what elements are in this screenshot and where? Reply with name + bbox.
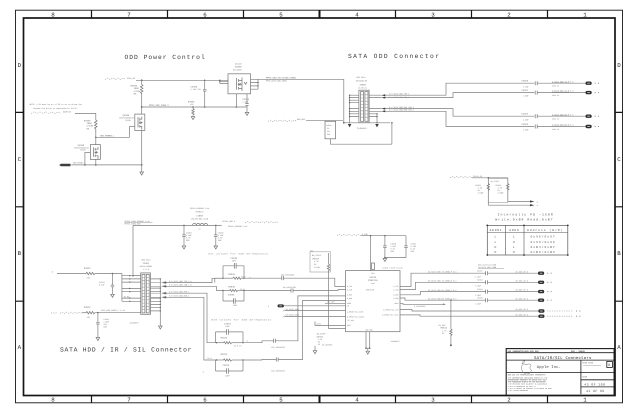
wire HDD 5V rail	[133, 224, 222, 226]
resistor R4535	[223, 285, 245, 291]
capacitor C4395	[191, 80, 207, 107]
svg-text:J4900: J4900	[359, 83, 366, 86]
svg-text:15PF: 15PF	[225, 325, 230, 328]
svg-text:D: D	[18, 62, 22, 69]
svg-text:1.0UF: 1.0UF	[523, 118, 529, 121]
filter F4900	[325, 121, 336, 139]
svg-text:A_RXP: A_RXP	[393, 294, 398, 297]
capacitor C4396	[243, 94, 250, 116]
capacitor C4921	[522, 89, 586, 98]
U4510 left pin stubs	[325, 301, 346, 304]
wire HDD power to J4901	[133, 225, 141, 275]
junction dots bottom rail	[84, 164, 86, 166]
svg-text:1.0UF: 1.0UF	[523, 85, 529, 88]
net stub SSD_MODE_EN (dashed)	[31, 111, 71, 114]
pad SATA ODD RXP	[586, 115, 600, 118]
pad HDD RXN	[538, 299, 552, 302]
wire ODD detect to connector	[306, 119, 343, 121]
capacitor C4920	[522, 80, 586, 89]
resistor R4396	[131, 80, 144, 95]
svg-text:C4912: C4912	[477, 270, 483, 273]
capacitor C4910	[383, 236, 397, 258]
svg-text:A_TXN: A_TXN	[393, 288, 398, 291]
wire Q4399 gate	[85, 153, 91, 165]
svg-text:1: 1	[583, 11, 587, 18]
svg-text:R4531: R4531	[84, 267, 91, 270]
svg-text:X.X.X: X.X.X	[51, 312, 58, 315]
svg-text:C4921: C4921	[522, 89, 529, 92]
transistor U4511	[313, 333, 326, 354]
title block outer box	[506, 349, 614, 396]
wire VDD pin	[370, 236, 372, 271]
svg-text:SATA ODD Connector: SATA ODD Connector	[348, 53, 440, 60]
junction dots on 5V rail	[141, 79, 143, 81]
svg-text:XX_SATA_HDD_TX_CONN_N 5-4: XX_SATA_HDD_TX_CONN_N 5-4	[428, 280, 457, 283]
wire Q4396 right pins bus	[251, 79, 259, 89]
svg-text:15PF: 15PF	[225, 375, 230, 378]
svg-text:B: B	[608, 363, 610, 368]
svg-text:D: D	[617, 62, 621, 69]
U4510 right pin names	[382, 285, 398, 317]
svg-text:JK.MK.SL: JK.MK.SL	[358, 87, 367, 90]
svg-text:FL4900LD: FL4900LD	[357, 127, 367, 130]
IC U4510	[346, 271, 401, 332]
svg-text:TST_ADV: TST_ADV	[347, 319, 354, 322]
svg-text:B: B	[617, 250, 621, 257]
svg-text:8: 8	[51, 11, 55, 18]
junction C4531 node	[112, 273, 114, 275]
wire SATA ODD RXP trace	[385, 109, 534, 117]
svg-text:15PF: 15PF	[232, 260, 237, 263]
svg-text:2.2UF 25V: 2.2UF 25V	[191, 88, 202, 91]
svg-text:IR: IR	[347, 305, 349, 308]
svg-text:L: L	[513, 236, 515, 239]
svg-text:FERRITE: FERRITE	[196, 210, 205, 213]
wire pullup rail	[472, 177, 508, 179]
svg-text:S5P4230: S5P4230	[366, 289, 375, 292]
capacitor C4923	[522, 123, 586, 132]
junction C4532 node	[97, 312, 99, 314]
svg-text:SMD: SMD	[327, 133, 330, 136]
svg-text:XXX - XXXXX: XXX - XXXXX	[571, 350, 585, 353]
svg-text:0xB8/0xB9: 0xB8/0xB9	[531, 250, 556, 254]
pin arrow SATA_ODD_TXN	[381, 97, 385, 99]
wire trace HDD RXP	[400, 292, 486, 295]
svg-text:0.1UF: 0.1UF	[99, 284, 105, 287]
svg-text:SATA HDD / IR / SIL Connector: SATA HDD / IR / SIL Connector	[60, 346, 192, 353]
svg-text:XXXX XX: XXXX XX	[552, 118, 559, 121]
svg-text:L: L	[495, 241, 497, 244]
svg-text:B_PRSNT/SIL_CFG2: B_PRSNT/SIL_CFG2	[382, 314, 398, 317]
svg-text:A: A	[617, 344, 621, 351]
svg-text:A_RXN: A_RXN	[393, 297, 398, 300]
wire node R4397 top	[75, 114, 96, 121]
SECTION: TITLE BLOCK	[506, 349, 614, 396]
svg-text:0x98/0x99: 0x98/0x99	[531, 240, 556, 244]
capacitor C4913	[475, 279, 538, 288]
resistor R4513	[496, 178, 531, 202]
svg-text:NOTICE OF PROPRIETARY PROPERTY: NOTICE OF PROPRIETARY PROPERTY:	[508, 373, 547, 376]
wire SATA ODD RXN trace	[385, 111, 534, 126]
svg-text:43 OF 109: 43 OF 109	[584, 383, 605, 387]
capacitor C4902	[214, 225, 223, 249]
svg-text:B: B	[18, 250, 22, 257]
wire HDD RXN to lower network4	[166, 297, 216, 360]
resistor R4391	[188, 101, 195, 120]
svg-text:F4900: F4900	[326, 124, 331, 127]
svg-text:5: 5	[279, 396, 283, 403]
svg-text:C: C	[617, 156, 621, 163]
svg-text:1/16W: 1/16W	[478, 191, 485, 194]
SECTION: J4901 HDD CONNECTOR	[51, 259, 222, 360]
wire gate net Q4398	[96, 126, 130, 137]
wire J4900 right pin bus	[369, 95, 381, 123]
svg-text:A_TXP: A_TXP	[393, 285, 398, 288]
svg-text:75.0 1%: 75.0 1%	[234, 344, 243, 347]
net label PP5V3_HDDPWR	[125, 220, 153, 226]
svg-text:R4533: R4533	[221, 353, 228, 356]
junction dots mid rail	[192, 106, 194, 108]
svg-text:IR_RX: IR_RX	[124, 295, 131, 298]
svg-text:XXX_XXXXXXXX: XXX_XXXXXXXX	[271, 346, 285, 349]
svg-text:31A4698T: 31A4698T	[130, 321, 140, 324]
net tag SATA_ODD_PWR_L	[59, 162, 86, 167]
resistor R4531	[51, 267, 122, 280]
svg-text:XX_XXX_XX 5: XX_XXX_XX 5	[516, 289, 529, 292]
svg-text:H: H	[513, 241, 515, 244]
svg-text:1: 1	[583, 396, 587, 403]
bus label SATA HDD CONN	[478, 263, 504, 268]
inductor L4900	[190, 207, 210, 230]
svg-text:XX_SATA_HDD_RX_CONN_P 5-4: XX_SATA_HDD_RX_CONN_P 5-4	[428, 289, 457, 292]
svg-text:XX_SATA_HDD_TX_CONN_P 5-4: XX_SATA_HDD_TX_CONN_P 5-4	[428, 270, 457, 273]
svg-text:SATA_HDD_PRSNT_L 1-4A: SATA_HDD_PRSNT_L 1-4A	[101, 309, 126, 312]
SECTION: SATA ODD CONNECTOR	[325, 76, 599, 144]
svg-text:Write:0xB8 Read:0xB7: Write:0xB8 Read:0xB7	[495, 217, 553, 221]
wire J4901 right pin bus	[151, 278, 163, 329]
svg-text:H: H	[495, 246, 497, 249]
svg-text:XX_XXX_XX 5: XX_XXX_XX 5	[516, 279, 529, 282]
nc stub pin SIL_SCMD2	[283, 314, 346, 318]
svg-text:ODD_PWREN_L: ODD_PWREN_L	[100, 134, 115, 137]
svg-text:B_TXP: B_TXP	[347, 285, 352, 288]
svg-text:6: 6	[203, 11, 207, 18]
capacitor C4535	[223, 293, 244, 307]
svg-text:XXX_XXXXXXXX: XXX_XXXXXXXX	[281, 273, 295, 276]
svg-text:3: 3	[431, 396, 435, 403]
wire RXP exit with series cap	[243, 296, 346, 349]
svg-text:7: 7	[127, 11, 131, 18]
svg-text:0x96/0x97: 0x96/0x97	[531, 235, 556, 239]
svg-text:75205: 75205	[125, 119, 132, 122]
wire cap ground rail	[385, 257, 406, 259]
svg-text:XXXX XX: XXXX XX	[552, 128, 559, 131]
svg-text:R4532: R4532	[84, 306, 91, 309]
wire mid rail y107	[142, 106, 247, 108]
svg-text:1/16W: 1/16W	[314, 266, 321, 269]
pad HDD RXP	[538, 290, 552, 293]
svg-text:XX_XXXX_XXXX: XX_XXXX_XXXX	[286, 314, 300, 317]
resistor R4532	[51, 306, 141, 319]
svg-text:X_XXXXXXXX: X_XXXXXXXX	[414, 305, 426, 308]
wire trace HDD TXP	[400, 273, 486, 286]
svg-text:C4913: C4913	[477, 279, 484, 282]
svg-text:C4922: C4922	[522, 113, 529, 116]
transistor Q4398	[119, 114, 145, 130]
wire source rail to main rail	[71, 164, 141, 166]
U4510 left pin names	[347, 285, 364, 327]
svg-text:ODD_PRSNT_L: ODD_PRSNT_L	[73, 162, 86, 165]
transistor Q4396	[228, 63, 251, 94]
wire Q4398 gate stub	[129, 125, 134, 127]
bottom zone ticks	[92, 396, 548, 403]
svg-text:XX_XXX_XX 5: XX_XXX_XX 5	[516, 297, 529, 300]
connector J4901 body	[141, 273, 151, 314]
wire HDD TXN to network2	[166, 285, 217, 287]
capacitor C4911	[404, 236, 417, 258]
pad SIL CFG2	[538, 315, 580, 318]
svg-text:A_PRSNT/SIL_SCMD: A_PRSNT/SIL_SCMD	[347, 310, 363, 313]
svg-text:-2: -2	[536, 201, 538, 204]
pad SATA ODD RXN	[586, 125, 600, 128]
svg-text:Internally PD ~150R: Internally PD ~150R	[498, 212, 554, 216]
svg-text:R4534: R4534	[221, 337, 228, 340]
ground caps	[383, 258, 387, 261]
wire VDD rail	[361, 235, 406, 237]
svg-text:1.5.8: 1.5.8	[143, 268, 150, 271]
svg-text:5: 5	[268, 305, 269, 308]
svg-text:1/16W: 1/16W	[498, 191, 505, 194]
wire R4396 bottom to Q4398	[141, 93, 143, 114]
capacitor C4915	[475, 297, 538, 306]
stub pin REXT	[315, 322, 346, 326]
pin arrow SATA_HDD_RXP	[151, 292, 167, 294]
svg-text:REXT: REXT	[347, 324, 351, 327]
svg-text:Address (W/R): Address (W/R)	[527, 228, 563, 232]
svg-text:C4915: C4915	[477, 297, 484, 300]
wire IR to U4510	[284, 305, 346, 307]
svg-text:SATA/IR/SIL Connectors: SATA/IR/SIL Connectors	[534, 356, 592, 361]
wire RXN exit with series cap	[243, 300, 346, 372]
capacitor C4533	[216, 364, 244, 378]
svg-text:6: 6	[203, 396, 207, 403]
connector J4900 body	[359, 90, 369, 123]
pad SATA ODD TXP	[586, 82, 600, 85]
address table	[486, 225, 568, 256]
svg-text:H: H	[513, 251, 515, 254]
svg-text:PP5V3_HDDPWR 1-4A: PP5V3_HDDPWR 1-4A	[228, 225, 248, 228]
svg-text:75205: 75205	[80, 149, 87, 152]
U4510 ground pins	[365, 332, 370, 355]
svg-text:L: L	[495, 236, 497, 239]
capacitor C4922	[522, 113, 586, 122]
wire ODD power loop	[330, 79, 392, 144]
wire main 5V rail	[136, 79, 228, 81]
wire HDD RXP to lower network3	[166, 293, 216, 343]
network2 side rails	[223, 291, 244, 302]
capacitor C4532	[96, 313, 109, 341]
svg-text:2: 2	[507, 396, 511, 403]
svg-text:201209-601/1A2B: 201209-601/1A2B	[191, 218, 209, 221]
pad SIL CFG	[538, 309, 580, 312]
svg-text:1.0UF: 1.0UF	[523, 129, 529, 132]
svg-text:L: L	[513, 246, 515, 249]
svg-text:XXXX: XXXX	[582, 376, 588, 379]
SECTION: RIGHT TRACES	[400, 263, 580, 318]
network4 side rails	[216, 360, 244, 371]
pad HDD TXN	[538, 281, 552, 284]
SECTION: HDD POWER FILTER	[125, 207, 279, 276]
svg-text:XX_XXXX_XXXX: XX_XXXX_XXXX	[286, 308, 300, 311]
TITLES	[60, 53, 440, 353]
wire HDD TXP to network1	[166, 278, 222, 282]
svg-text:ADDR1: ADDR1	[490, 229, 503, 232]
svg-text:XXXX XXXX: XXXX XXXX	[582, 361, 594, 364]
capacitor C4534	[216, 322, 244, 334]
capacitor C4914	[475, 288, 538, 297]
wire TXN entry jog	[217, 286, 224, 290]
svg-text:UE15SAB-HS: UE15SAB-HS	[356, 80, 368, 83]
SECTION: U4510 MUX	[283, 233, 452, 354]
pad SATA ODD TXN	[586, 91, 600, 94]
wire TXN exit with series cap	[244, 286, 346, 292]
capacitor C4531	[99, 274, 114, 298]
capacitor C4536	[223, 257, 244, 269]
net label PP5V3_HDD right	[223, 220, 279, 228]
svg-text:THE FOREGOING RIGHTS OF THE RE: THE FOREGOING RIGHTS OF THE RECIPIENT:	[508, 380, 546, 383]
wire main rail down	[141, 130, 143, 172]
wire Q4399 drain	[95, 137, 97, 144]
no-stuff box	[488, 179, 508, 203]
transistor Q4399	[74, 144, 100, 160]
svg-text:A_PRSNT/SIL_CFG: A_PRSNT/SIL_CFG	[383, 308, 398, 311]
svg-text:SI4435DY: SI4435DY	[233, 68, 243, 71]
svg-text:XXX SCHEMATIC=XXX.XXX XXX: XXX SCHEMATIC=XXX.XXX XXX	[508, 350, 540, 353]
svg-text:C4920: C4920	[522, 80, 529, 83]
resistor R4397	[84, 119, 97, 132]
title block dividers	[506, 353, 614, 394]
svg-text:PP5V_ODD_CONN X: PP5V_ODD_CONN X	[149, 104, 169, 107]
svg-text:B_RXN: B_RXN	[347, 297, 352, 300]
svg-text:R4536: R4536	[228, 273, 235, 276]
resistor R4517 no-stuff block	[310, 249, 346, 328]
svg-text:8: 8	[51, 396, 55, 403]
svg-text:3: 3	[431, 11, 435, 18]
dashed stub top left	[105, 77, 136, 80]
net label PP3V3 dashed	[450, 175, 483, 178]
pin arrow SATA_HDD_TXP	[151, 282, 167, 284]
svg-text:-2: -2	[536, 204, 538, 207]
pin arrow SATA_HDD_RXN	[151, 296, 167, 298]
connector J4901 label	[140, 259, 153, 272]
svg-text:XX_SATA_HDD_RX_CONN_N 5-4: XX_SATA_HDD_RX_CONN_N 5-4	[428, 297, 457, 300]
pin arrow SATA_ODD_RXP	[381, 108, 385, 110]
svg-text:C4535: C4535	[228, 293, 235, 296]
svg-text:A: A	[18, 344, 22, 351]
junction gate node	[95, 137, 97, 139]
pin arrow SATA_HDD_TXN	[151, 285, 167, 287]
network1 side rails	[223, 266, 244, 278]
svg-text:0xB4/0xB7: 0xB4/0xB7	[531, 245, 556, 249]
resistor R4536	[223, 273, 252, 280]
wire trace SIL CFG	[400, 310, 538, 311]
ground main rail	[140, 172, 144, 175]
resistor R4512	[439, 299, 453, 346]
wire Q4396 left pins	[220, 80, 228, 83]
svg-text:R4535: R4535	[228, 285, 235, 288]
wire Q4396 bottom to mid rail	[235, 94, 237, 107]
wire J4900 left pin bus	[349, 95, 359, 124]
capacitor C4912	[475, 270, 538, 279]
svg-text:Apple Inc.: Apple Inc.	[537, 365, 561, 370]
wire trace SIL CFG2	[400, 315, 538, 316]
svg-text:place close to pin: place close to pin	[383, 267, 403, 270]
pin arrow SATA_ODD_RXN	[381, 110, 385, 112]
SECTION: ODD POWER CONTROL	[30, 63, 344, 176]
svg-text:XX_XXX_XX 5: XX_XXX_XX 5	[516, 313, 529, 316]
wire SATA ODD TXN trace	[385, 93, 534, 98]
svg-text:H: H	[495, 251, 497, 254]
off-page arrow ADD jumper1	[530, 200, 534, 202]
dashed stub mid (ODD detect)	[268, 118, 306, 122]
svg-text:B_TXN: B_TXN	[347, 288, 352, 291]
junction node PP5V ODD	[141, 106, 143, 108]
svg-text:ODDP_EN: ODDP_EN	[63, 111, 71, 114]
svg-text:C4914: C4914	[477, 288, 484, 291]
wire trace HDD RXN	[400, 298, 486, 300]
svg-text:beyond the drive is separated: beyond the drive is separated to 5V/3V.	[34, 107, 78, 110]
svg-text:1.0UF: 1.0UF	[523, 95, 529, 98]
net label P_VDD dashed	[337, 233, 369, 236]
svg-text:PP5V_SATA_ODD_CONN: PP5V_SATA_ODD_CONN	[266, 80, 286, 83]
wire SATA ODD TXP trace	[385, 83, 534, 95]
wire TXP entry jog	[215, 278, 223, 282]
legal notice	[508, 373, 552, 392]
svg-text:B_PRSNT/SIL_SCMD2: B_PRSNT/SIL_SCMD2	[347, 315, 364, 318]
junction power pin	[132, 275, 134, 277]
wire trace ADD1 stub	[400, 303, 446, 308]
svg-text:NO_STUFF: NO_STUFF	[491, 180, 500, 183]
pin arrow SATA_ODD_TXP	[381, 94, 385, 96]
svg-text:C4533: C4533	[223, 364, 230, 367]
svg-text:XXXX XX: XXXX XX	[552, 85, 559, 88]
resistor R4534	[216, 337, 244, 348]
wire ODD power to filter	[258, 78, 344, 80]
svg-text:XX_XXX_XX 5: XX_XXX_XX 5	[516, 308, 529, 311]
right zone ticks	[615, 112, 623, 301]
svg-text:NOTE: 3.3V must be on if PG is: NOTE: 3.3V must be on if PG is on to dri…	[30, 103, 83, 106]
off-page arrow ADD jumper2	[530, 204, 534, 206]
svg-text:XXXX XX: XXXX XX	[552, 94, 559, 97]
wire Q4399 source drop	[95, 159, 97, 165]
pad HDD TXP	[538, 272, 552, 275]
svg-text:33A4696T: 33A4696T	[391, 340, 401, 343]
svg-text:2: 2	[507, 11, 511, 18]
wire TXP exit with series cap	[244, 273, 346, 286]
wire trace HDD TXN	[400, 282, 486, 289]
pad IR test point	[268, 304, 284, 307]
wire J4901 left pin feeds	[122, 274, 141, 302]
svg-text:5: 5	[279, 11, 283, 18]
rev box	[607, 361, 613, 367]
svg-text:R20 values for 3dB de-emphasis: R20 values for 3dB de-emphasis	[212, 318, 272, 321]
svg-text:XXX_XXXXXXXX: XXX_XXXXXXXX	[271, 369, 285, 372]
svg-text:1.0UF: 1.0UF	[475, 302, 481, 305]
SECTION: DE-EMPHASIS NETWORKS	[202, 253, 346, 378]
svg-text:4: 4	[355, 396, 359, 403]
pin rail J4900 bottom	[344, 122, 390, 124]
svg-text:42 OF 86: 42 OF 86	[586, 389, 605, 393]
